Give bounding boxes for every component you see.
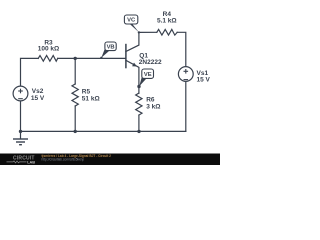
wire base row (R3 to Q1 base) — [58, 57, 126, 59]
wire top-left horizontal (Vs2 to R3) — [21, 58, 39, 86]
node junction dot rail left — [19, 130, 22, 133]
svg-text:2N2222: 2N2222 — [139, 59, 162, 66]
footer bar — [0, 154, 220, 166]
svg-text:15 V: 15 V — [31, 95, 45, 102]
transistor Q1 emitter wire — [126, 60, 139, 93]
ground bar 2 — [16, 141, 25, 143]
svg-text:VB: VB — [107, 45, 115, 51]
svg-text:LAB: LAB — [27, 160, 35, 164]
resistor R4 zigzag — [157, 29, 177, 35]
node junction dot emitter probe — [137, 85, 140, 88]
resistor R5 zigzag — [72, 84, 78, 106]
transistor Q1 collector wire — [126, 32, 139, 51]
footer logo wire — [7, 161, 27, 163]
source Vs1 — [178, 67, 193, 82]
svg-text:VE: VE — [144, 72, 152, 78]
ground stub — [20, 131, 22, 138]
probe VE pointer — [139, 77, 146, 87]
wire R4 to Vs1 — [177, 32, 186, 66]
transistor Q1 emitter arrow — [132, 63, 137, 67]
svg-text:5.1 kΩ: 5.1 kΩ — [157, 18, 177, 25]
svg-text:http://circuitlab.com/c/8s5kxn: http://circuitlab.com/c/8s5kxnp — [42, 158, 85, 162]
resistor R3 zigzag — [38, 56, 58, 62]
wire R5 bottom — [74, 106, 76, 131]
svg-text:51 kΩ: 51 kΩ — [82, 95, 100, 102]
svg-text:100 kΩ: 100 kΩ — [38, 46, 59, 53]
probe VB box — [105, 42, 116, 51]
ground bar 1 — [13, 138, 28, 140]
node junction dot rail R5 — [74, 130, 77, 133]
probe VB pointer — [101, 49, 109, 58]
wire R5 top — [74, 58, 76, 84]
source Vs2 — [13, 86, 28, 101]
probe VE box — [142, 69, 154, 78]
wire Vs1 bottom — [185, 81, 187, 131]
wire bottom rail — [21, 130, 186, 132]
resistor R6 zigzag — [136, 93, 142, 115]
svg-text:VC: VC — [127, 18, 136, 24]
svg-text:15 V: 15 V — [197, 76, 211, 83]
probe VC box — [124, 15, 137, 24]
transistor Q1 base bar — [125, 44, 127, 69]
wire Vs2 bottom — [20, 101, 22, 131]
node junction dot base row — [74, 57, 77, 60]
svg-text:3 kΩ: 3 kΩ — [146, 103, 160, 110]
wire R6 bottom — [138, 115, 140, 131]
wire collector to R4 — [139, 31, 157, 33]
node junction dot rail R6 — [137, 130, 140, 133]
probe VC pointer — [128, 22, 139, 32]
ground bar 3 — [19, 144, 22, 146]
